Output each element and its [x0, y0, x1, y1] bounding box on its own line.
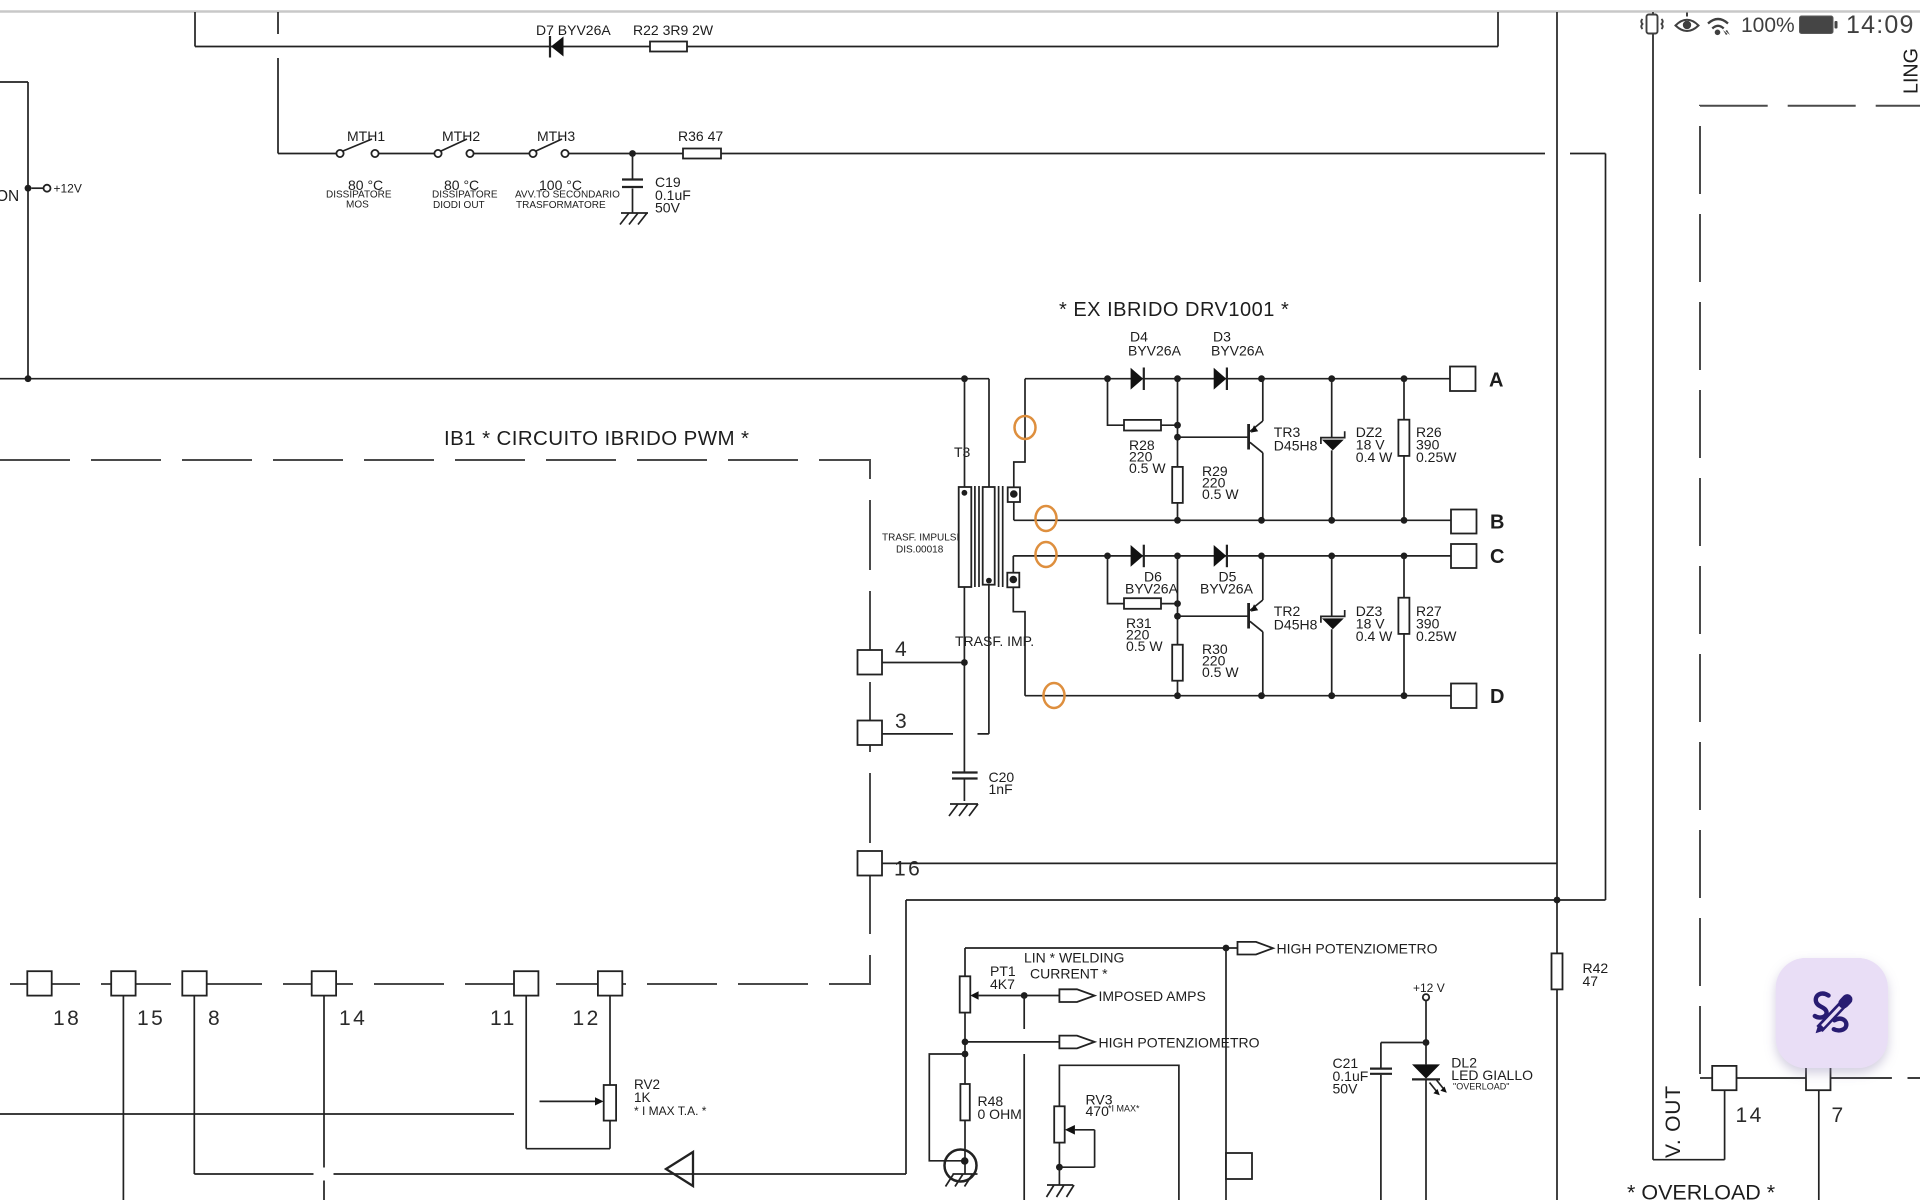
svg-text:D45H8: D45H8: [1274, 617, 1318, 633]
svg-text:4: 4: [895, 638, 909, 661]
wiper PT1 / IMPOSED AMPS: [970, 991, 978, 999]
svg-text:HIGH POTENZIOMETRO: HIGH POTENZIOMETRO: [1277, 941, 1438, 957]
svg-text:T3: T3: [954, 444, 971, 460]
terminal 14: [312, 971, 336, 995]
svg-text:0.4 W: 0.4 W: [1356, 628, 1393, 644]
svg-text:+12V: +12V: [54, 182, 82, 196]
resistor R48: [960, 1084, 969, 1120]
ground C20: [949, 804, 978, 816]
svg-text:47: 47: [1583, 973, 1599, 989]
ground RV3: [1058, 1167, 1060, 1185]
thermal switch MTH3: [529, 150, 536, 157]
svg-text:470: 470: [1086, 1103, 1110, 1119]
svg-text:BYV26A: BYV26A: [1125, 581, 1179, 597]
svg-text:* OVERLOAD *: * OVERLOAD *: [1627, 1181, 1776, 1200]
wire long vertical x1653: [1652, 12, 1654, 1160]
wire 16 rail y863.4: [882, 862, 1557, 864]
wire long vertical x1557: [1556, 12, 1558, 953]
svg-text:HIGH POTENZIOMETRO: HIGH POTENZIOMETRO: [1099, 1034, 1260, 1050]
svg-text:TRASF. IMPULSI: TRASF. IMPULSI: [882, 533, 959, 544]
terminal B: [1451, 510, 1477, 534]
svg-text:7: 7: [1832, 1104, 1846, 1127]
capacitor C20: [952, 773, 978, 779]
svg-text:IB1 * CIRCUITO IBRIDO PWM *: IB1 * CIRCUITO IBRIDO PWM *: [444, 427, 749, 450]
wire A rail right y378.7: [1025, 378, 1450, 380]
svg-text:3: 3: [895, 710, 909, 733]
node ON rail top-left: [0, 82, 28, 379]
svg-text:R36 47: R36 47: [678, 128, 723, 144]
wire top-left frame vertical x195: [194, 12, 196, 47]
svg-text:TRASFORMATORE: TRASFORMATORE: [516, 200, 606, 211]
wire D7/R22 rail y46.5: [195, 46, 1498, 48]
status bar vibrate icon: [1641, 15, 1663, 34]
svg-text:CURRENT *: CURRENT *: [1030, 966, 1108, 982]
svg-text:+12 V: +12 V: [1413, 981, 1445, 995]
node junctions B rail: [1174, 517, 1181, 524]
top frame gray line: [0, 10, 1920, 12]
svg-text:0.25W: 0.25W: [1416, 628, 1457, 644]
node junctions D rail: [1174, 692, 1181, 699]
terminal 11: [514, 971, 538, 995]
annotation orange circle 3: [1036, 542, 1057, 567]
potentiometer PT1: [964, 948, 966, 976]
svg-text:MOS: MOS: [346, 200, 369, 211]
svg-text:50V: 50V: [655, 200, 681, 216]
svg-text:MTH3: MTH3: [537, 128, 575, 144]
wire vertical x1605 from MTH rail: [1605, 154, 1607, 901]
svg-text:4K7: 4K7: [990, 976, 1015, 992]
svg-text:12: 12: [573, 1007, 601, 1030]
svg-text:0.5 W: 0.5 W: [1129, 460, 1166, 476]
wire frame vertical x1497: [1497, 12, 1499, 47]
resistor R27: [1403, 556, 1405, 696]
svg-text:IMPOSED AMPS: IMPOSED AMPS: [1099, 988, 1206, 1004]
terminal 15: [111, 971, 135, 995]
svg-text:C: C: [1490, 546, 1504, 568]
diode D3: [1226, 368, 1228, 391]
wire signal rail y1174: [194, 1173, 906, 1175]
terminal C: [1451, 544, 1477, 568]
wire long rail y1114: [0, 1113, 514, 1115]
wire R48 bypass loop: [962, 1051, 969, 1058]
resistor R29: [1177, 379, 1179, 521]
svg-text:0.4 W: 0.4 W: [1356, 449, 1393, 465]
wire D rail y695.7: [1025, 695, 1451, 697]
resistor R36: [683, 149, 721, 159]
arrow HIGH POTENZIOMETRO top: [1238, 942, 1274, 955]
zener DZ2: [1331, 379, 1333, 521]
svg-text:0.5 W: 0.5 W: [1126, 638, 1163, 654]
diode D4: [1143, 368, 1145, 391]
wire wiper stub down: [1023, 996, 1025, 1200]
svg-text:0.25W: 0.25W: [1416, 449, 1457, 465]
svg-text:BYV26A: BYV26A: [1211, 343, 1265, 359]
ground circle node: [945, 1150, 977, 1182]
svg-text:DISSIPATORE: DISSIPATORE: [432, 190, 498, 201]
terminal 3: [858, 721, 883, 746]
LED DL2: [1425, 1043, 1427, 1065]
svg-text:16: 16: [894, 858, 922, 881]
wire MTH rail y153.5: [278, 153, 1606, 155]
resistor R31: [1108, 556, 1178, 604]
wire C rail y555.9: [1013, 556, 1451, 573]
svg-text:MTH1: MTH1: [347, 128, 385, 144]
svg-text:* EX IBRIDO DRV1001 *: * EX IBRIDO DRV1001 *: [1059, 299, 1289, 321]
transistor TR2: [1178, 615, 1249, 617]
svg-text:R22 3R9 2W: R22 3R9 2W: [633, 22, 714, 38]
annotation orange circle 1: [1015, 416, 1036, 439]
wire PT1 top to HIGH POT: [965, 947, 1238, 949]
wire V.OUT U link: [1653, 1090, 1725, 1160]
svg-text:TRASF. IMP.: TRASF. IMP.: [955, 633, 1034, 649]
terminal 14 out: [1700, 1077, 1712, 1079]
svg-text:0.5 W: 0.5 W: [1202, 486, 1239, 502]
svg-text:1K: 1K: [634, 1090, 651, 1105]
svg-text:V. OUT: V. OUT: [1662, 1085, 1685, 1158]
diode D6: [1143, 545, 1145, 568]
dashed box V.OUT: [1700, 106, 1920, 1074]
terminal 7 out: [1737, 1077, 1807, 1079]
resistor R28: [1108, 379, 1178, 426]
ground C19: [620, 213, 648, 225]
potentiometer RV3: [1054, 1106, 1065, 1142]
thermal switch MTH2: [434, 150, 441, 157]
svg-text:15: 15: [137, 1007, 165, 1030]
svg-text:D7 BYV26A: D7 BYV26A: [536, 22, 611, 38]
svg-text:LING: LING: [1901, 48, 1920, 94]
terminal 16: [858, 851, 883, 876]
svg-text:0 OHM: 0 OHM: [978, 1106, 1022, 1122]
svg-text:DIODI OUT: DIODI OUT: [433, 200, 485, 211]
svg-text:A: A: [1489, 370, 1503, 392]
svg-text:14:09: 14:09: [1846, 11, 1915, 39]
resistor R22: [650, 42, 687, 52]
potentiometer RV2: [604, 1085, 616, 1121]
svg-text:MTH2: MTH2: [442, 128, 480, 144]
IB1 dashed box: [0, 460, 870, 984]
svg-text:*I MAX*: *I MAX*: [1108, 1104, 1140, 1114]
thermal switch MTH1: [336, 150, 343, 157]
wire secondary top jog to A rail: [1014, 379, 1025, 488]
terminal 4: [858, 650, 883, 675]
resistor R26: [1403, 379, 1405, 521]
svg-text:D45H8: D45H8: [1274, 438, 1318, 454]
svg-text:LIN * WELDING: LIN * WELDING: [1024, 950, 1124, 966]
terminal 18: [27, 971, 51, 995]
wire HIGH POT 2: [962, 1039, 969, 1046]
node junctions A rail: [1104, 375, 1111, 382]
terminal A: [1450, 367, 1476, 392]
FAB pen icon: [1815, 994, 1847, 1031]
node junction C19: [629, 150, 636, 157]
svg-text:DIS.00018: DIS.00018: [896, 545, 944, 556]
capacitor C21: [1380, 1043, 1382, 1200]
node +12V: [32, 187, 44, 189]
svg-text:"OVERLOAD": "OVERLOAD": [1453, 1082, 1509, 1092]
svg-text:14: 14: [339, 1007, 367, 1030]
svg-text:D: D: [1490, 686, 1504, 708]
svg-text:ON: ON: [0, 188, 19, 205]
wire frame vertical x278: [277, 12, 279, 154]
annotation orange circle 4: [1044, 683, 1065, 708]
wire secondary bottom jog to D rail: [1013, 587, 1025, 695]
wire vertical x1226 to terminal: [1225, 948, 1227, 1200]
diode D7: [549, 36, 551, 58]
terminal 12: [598, 971, 622, 995]
annotation orange circle 2: [1036, 506, 1057, 531]
svg-text:0.5 W: 0.5 W: [1202, 664, 1239, 680]
wire vertical x906: [905, 900, 907, 1174]
wire y900 rail: [906, 899, 1606, 901]
svg-text:14: 14: [1736, 1104, 1764, 1127]
diode D5: [1226, 545, 1228, 568]
svg-text:8: 8: [208, 1007, 222, 1030]
svg-text:AVV.TO SECONDARIO: AVV.TO SECONDARIO: [515, 190, 620, 201]
wire primary pins down: [964, 585, 989, 772]
svg-text:* I MAX T.A. *: * I MAX T.A. *: [634, 1104, 707, 1118]
svg-text:100%: 100%: [1741, 14, 1795, 37]
arrow signal left: [666, 1152, 693, 1186]
svg-text:BYV26A: BYV26A: [1200, 581, 1254, 597]
zener DZ3: [1331, 556, 1333, 696]
capacitor C19: [632, 155, 634, 213]
svg-text:50V: 50V: [1333, 1081, 1359, 1097]
wire main rail y378.7: [0, 378, 989, 380]
svg-text:BYV26A: BYV26A: [1128, 343, 1182, 359]
terminal square bottom: [1226, 1153, 1252, 1179]
status bar eye icon: [1676, 13, 1699, 32]
transistor TR3: [1178, 436, 1249, 438]
status bar battery icon: [1800, 16, 1834, 34]
wire RV3 frame: [1059, 1065, 1179, 1200]
terminal 8: [182, 971, 206, 995]
resistor R30: [1177, 556, 1179, 696]
resistor R42: [1552, 953, 1563, 989]
node junctions C rail: [1104, 553, 1111, 560]
status bar wifi icon: [1708, 19, 1728, 29]
svg-text:11: 11: [490, 1007, 517, 1030]
terminal D: [1451, 684, 1477, 709]
svg-text:18: 18: [53, 1007, 81, 1030]
svg-text:B: B: [1490, 512, 1504, 534]
svg-text:1nF: 1nF: [989, 781, 1013, 797]
wire B rail y520.3: [1014, 502, 1451, 520]
